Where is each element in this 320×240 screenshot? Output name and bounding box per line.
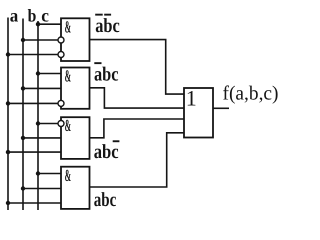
junction dot b/U3 <box>21 136 25 140</box>
wire b to U3 middle input <box>23 137 61 139</box>
wire a to U4 bottom input <box>8 202 61 204</box>
inversion bubble U1 input a <box>58 52 64 58</box>
svg-text:&: & <box>65 18 72 37</box>
svg-text:&: & <box>65 116 72 135</box>
junction dot c/U4 <box>36 171 40 175</box>
overbar over a of minterm 1 <box>95 14 103 16</box>
wire a to U3 bottom input <box>8 151 61 153</box>
wire a to U2 bottom input bubble <box>8 102 58 104</box>
inversion bubble U1 input b <box>58 37 64 43</box>
wire b to U2 middle input <box>23 87 61 89</box>
AND gate U4 body <box>61 167 90 209</box>
inversion bubble U2 input a <box>58 100 64 106</box>
junction dot c/U3 <box>36 121 40 125</box>
junction dot a/U2 <box>6 101 10 105</box>
inversion bubble U3 input c <box>58 121 64 127</box>
wire U2 output to U5 input 2 <box>90 88 185 108</box>
wire c to U2 top input <box>38 73 61 75</box>
svg-text:abc: abc <box>95 15 120 37</box>
net b (vertical bus line) <box>22 19 24 211</box>
AND gate U1 body <box>61 18 90 61</box>
svg-text:c: c <box>41 6 49 26</box>
wire U3 output to U5 input 3 <box>90 119 185 138</box>
wire U1 output to U5 input 1 <box>90 40 185 95</box>
svg-text:&: & <box>65 67 72 86</box>
wire U5 output <box>213 107 229 109</box>
junction dot b/U2 <box>21 86 25 90</box>
overbar over b of minterm 1 <box>104 14 111 16</box>
AND gate U3 body <box>61 117 90 159</box>
svg-text:abc: abc <box>94 189 117 211</box>
svg-text:b: b <box>28 6 37 26</box>
wire b to U1 middle input bubble <box>23 39 58 41</box>
net a (vertical bus line) <box>7 18 9 211</box>
AND gate U2 body <box>61 68 90 109</box>
wire U4 output to U5 input 4 <box>90 133 185 187</box>
overbar over a of minterm 2 <box>94 62 101 64</box>
svg-text:1: 1 <box>186 85 197 110</box>
svg-text:abc: abc <box>94 141 119 163</box>
wire c to U4 top input <box>38 173 61 175</box>
wire a to U1 bottom input bubble <box>8 54 58 56</box>
OR gate U5 body <box>184 88 213 138</box>
junction dot b/U4 <box>21 186 25 190</box>
svg-text:&: & <box>65 166 72 185</box>
overbar over c of minterm 3 <box>113 140 120 142</box>
wire b to U4 middle input <box>23 188 61 190</box>
svg-text:abc: abc <box>94 63 119 85</box>
svg-text:f(a,b,c): f(a,b,c) <box>223 83 279 105</box>
junction dot b/U1 <box>21 38 25 42</box>
wire c to U3 top input bubble <box>38 123 58 125</box>
wire c to U1 top input <box>38 23 61 25</box>
junction dot c/U1 <box>36 22 40 26</box>
svg-text:a: a <box>10 6 19 26</box>
junction dot a/U4 <box>6 201 10 205</box>
junction dot a/U1 <box>6 52 10 56</box>
junction dot a/U3 <box>6 150 10 154</box>
net c (vertical bus line) <box>37 21 39 210</box>
junction dot c/U2 <box>36 71 40 75</box>
